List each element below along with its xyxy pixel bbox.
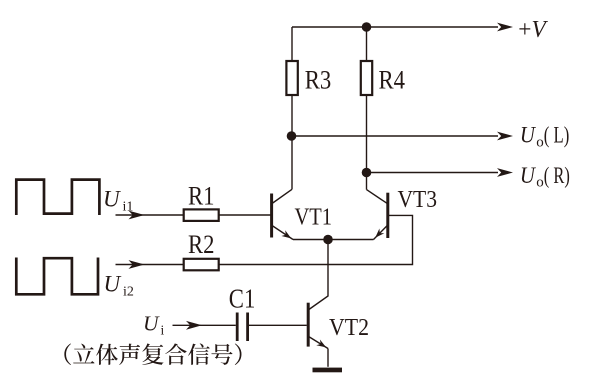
- svg-text:VT1: VT1: [295, 205, 333, 231]
- wire common emitter node down to VT2 collector: [309, 240, 328, 310]
- output arrow Uo(R): [497, 168, 513, 177]
- svg-text:VT3: VT3: [398, 187, 438, 213]
- node junction dot Uo(R): [362, 168, 372, 178]
- svg-text:i2: i2: [123, 285, 134, 300]
- svg-text:U: U: [104, 272, 122, 297]
- transistor VT2 emitter: [309, 337, 328, 349]
- wire input Ui1 to R1: [116, 214, 184, 216]
- svg-text:R1: R1: [188, 180, 215, 210]
- svg-text:U: U: [520, 163, 536, 188]
- resistor R4 lead bottom: [366, 95, 368, 190]
- square wave source 2: [16, 258, 98, 295]
- wire output Uo(R): [367, 172, 499, 174]
- resistor R3 lead bottom: [291, 95, 293, 189]
- power arrow +V: [497, 23, 513, 32]
- wire VT2 emitter to ground: [327, 349, 329, 367]
- svg-text:U: U: [103, 187, 121, 212]
- node common emitter junction: [323, 235, 333, 245]
- input arrow Ui2: [129, 260, 145, 269]
- resistor R3 body: [286, 61, 297, 95]
- wire output Uo(L): [292, 135, 499, 137]
- svg-text:+V: +V: [518, 16, 548, 43]
- transistor VT1 collector: [272, 189, 292, 203]
- svg-text:R2: R2: [188, 229, 215, 259]
- wire Ui to C1: [173, 324, 236, 326]
- wire VT1 emitter rail: [293, 239, 374, 241]
- input arrow Ui1: [129, 211, 145, 220]
- svg-text:R4: R4: [379, 65, 406, 95]
- svg-text:( L): ( L): [544, 123, 570, 148]
- resistor R2 body: [184, 259, 219, 271]
- transistor VT3 bar: [386, 193, 389, 238]
- svg-text:( R): ( R): [544, 163, 570, 188]
- wire top +V rail: [292, 26, 498, 28]
- node junction dot Uo(L): [287, 131, 297, 141]
- wire input Ui2 to R2: [116, 264, 184, 266]
- transistor VT1 emitter arrowhead: [281, 230, 291, 238]
- transistor VT2 emitter arrowhead: [316, 340, 326, 348]
- svg-text:U: U: [520, 123, 536, 148]
- svg-text:R3: R3: [305, 65, 332, 95]
- transistor VT3 emitter: [374, 225, 388, 239]
- ground symbol: [313, 368, 343, 373]
- input arrow Ui: [186, 321, 202, 330]
- wire R2 to VT3 base loop: [219, 215, 413, 264]
- transistor VT1 bar: [270, 194, 273, 238]
- capacitor C1 left plate: [236, 313, 239, 342]
- resistor R4 body: [361, 61, 372, 95]
- wire C1 to VT2 base: [249, 324, 307, 326]
- svg-text:o: o: [536, 134, 544, 150]
- svg-text:i1: i1: [123, 200, 134, 215]
- resistor R1 body: [184, 209, 219, 221]
- svg-text:U: U: [143, 312, 160, 336]
- node junction dot on +V rail: [362, 22, 372, 32]
- svg-text:i: i: [161, 323, 165, 338]
- svg-text:C1: C1: [229, 284, 256, 314]
- capacitor C1 right plate: [246, 313, 249, 342]
- svg-text:VT2: VT2: [329, 315, 369, 341]
- transistor VT2 bar: [307, 303, 310, 347]
- caption (stereo composite signal): [64, 343, 241, 365]
- transistor VT1 emitter: [272, 226, 293, 240]
- transistor VT3 collector: [367, 190, 388, 204]
- square wave source 1: [16, 180, 99, 215]
- resistor R3 lead top: [291, 27, 293, 61]
- resistor R4 lead top: [366, 27, 368, 61]
- svg-text:o: o: [536, 175, 544, 191]
- output arrow Uo(L): [497, 132, 513, 141]
- wire R1 to VT1 base: [219, 214, 271, 216]
- transistor VT3 emitter arrowhead: [375, 229, 384, 238]
